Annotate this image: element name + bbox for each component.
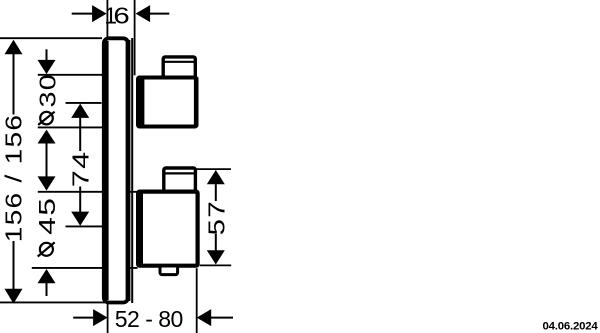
extension line 52-80-left <box>107 303 109 333</box>
svg-text:30: 30 <box>34 73 61 107</box>
extension line 16-right <box>134 0 136 75</box>
extension line 57-bottom <box>200 264 231 266</box>
dim O30 arrow-bottom <box>38 130 56 144</box>
plate front face thick line <box>105 41 108 300</box>
dim 156/156 line-bottom <box>13 241 15 290</box>
svg-text:6: 6 <box>113 3 129 29</box>
dim 156/156 arrow-bottom <box>5 289 23 304</box>
dim 57 line-top <box>215 184 217 201</box>
dim O45 arrow-top <box>38 176 56 190</box>
svg-text:156 / 156: 156 / 156 <box>2 114 27 242</box>
dim 57 arrow-top <box>207 170 225 184</box>
extension line bottom-handle-centerline <box>66 225 103 227</box>
top handle right thick edge <box>194 78 199 127</box>
dim 156/156 line-top <box>13 54 15 115</box>
top handle cap <box>163 57 195 78</box>
bottom handle cap inner line <box>164 172 196 174</box>
dim O45 arrow-bottom <box>38 269 56 283</box>
dim 16 arrow-right <box>136 5 151 22</box>
extension line bottom-handle-bottom <box>32 267 138 269</box>
dim 16 arrow-left <box>92 5 107 22</box>
extension line 52-80-right <box>196 268 198 333</box>
top handle base thick edge <box>140 78 144 127</box>
dim 57 arrow-bottom <box>207 250 225 264</box>
dim 16 line-right <box>150 13 170 15</box>
extension line 16-left <box>106 0 108 37</box>
dim 52-80 line-right <box>211 317 233 319</box>
bottom handle cap <box>164 168 196 192</box>
dim 74 line-bottom <box>79 187 81 212</box>
extension line top-handle-top <box>38 74 103 76</box>
extension line 57-top <box>197 168 232 170</box>
wall line behind plate <box>131 38 133 303</box>
extension line bottom-handle-top <box>38 191 137 193</box>
extension line plate-bottom <box>0 301 106 303</box>
svg-text:45: 45 <box>35 197 61 235</box>
dim 74 line-top <box>79 118 81 151</box>
bottom handle body <box>138 192 198 266</box>
svg-text:04.06.2024: 04.06.2024 <box>542 321 598 333</box>
dim 52-80 arrow-left <box>93 309 108 326</box>
dim O45 label <box>35 197 61 257</box>
top handle body <box>138 78 196 127</box>
dim O30 tail-top <box>46 49 48 60</box>
dim O45 tail-bottom <box>46 283 48 296</box>
plate right edge thickening <box>126 40 131 301</box>
dim O30 label <box>34 73 61 125</box>
svg-text:57: 57 <box>204 200 230 236</box>
extension line top-handle-bottom <box>38 126 104 128</box>
dim 52-80 arrow-right <box>197 309 212 326</box>
dim O30/O45 connecting tail <box>46 144 48 177</box>
extension line top-handle-centerline <box>66 102 102 104</box>
dim 52-80 line-left <box>73 317 93 319</box>
top handle cap inner line <box>163 61 196 63</box>
bottom handle base thick edge <box>140 192 143 266</box>
dim 16 line-left <box>72 13 93 15</box>
dim O30 arrow-top <box>38 60 56 74</box>
svg-text:52 - 80: 52 - 80 <box>115 306 183 332</box>
bottom handle tab <box>160 266 178 275</box>
svg-text:74: 74 <box>68 151 93 188</box>
extension line plate-top <box>0 37 102 39</box>
escutcheon plate outline <box>104 38 128 302</box>
dim 156/156 arrow-top <box>5 40 23 55</box>
dim 74 arrow-top <box>71 104 89 118</box>
dim 57 line-bottom <box>215 234 217 251</box>
dim 74 arrow-bottom <box>71 212 89 226</box>
